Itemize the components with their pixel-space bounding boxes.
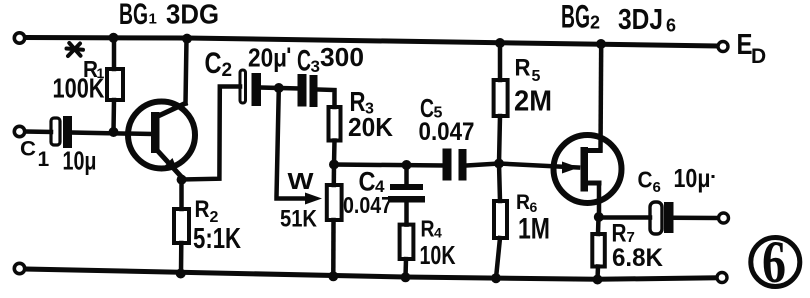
label C2 [205, 47, 233, 81]
node BG1 emitter junction [177, 175, 187, 185]
wire BG1 collector to rail [186, 39, 187, 104]
wire BG2 drain to rail [598, 44, 603, 151]
resistor R1 [107, 38, 123, 132]
svg-text:20μ: 20μ [248, 43, 287, 73]
svg-text:BG: BG [119, 0, 148, 31]
node source junction [594, 212, 604, 222]
svg-text:3DG: 3DG [166, 0, 219, 30]
svg-text:5: 5 [532, 68, 541, 85]
svg-text:10μ: 10μ [63, 146, 97, 176]
svg-text:6: 6 [762, 229, 786, 295]
svg-text:5:1K: 5:1K [193, 223, 241, 255]
capacitor C5 [443, 149, 467, 181]
wire node to C5 [334, 165, 443, 166]
label BG2 3DJ6 [561, 0, 676, 36]
node R2 bottom on rail [176, 269, 186, 279]
wire C6 to output terminal [674, 216, 718, 221]
arrow BG2 gate [562, 162, 579, 174]
label C3 [297, 42, 364, 78]
svg-text:BG: BG [561, 0, 590, 35]
label R7 [612, 220, 635, 248]
node R6 bottom on rail [491, 273, 501, 283]
node BG2 drain on rail [596, 39, 606, 49]
wire BG2 source down [597, 183, 602, 217]
transistor BG2 (FET) [554, 135, 622, 203]
terminal bottom-left [14, 263, 24, 273]
svg-text:2: 2 [590, 13, 600, 33]
terminal output mid-right [719, 213, 729, 223]
wire top supply rail [26, 38, 716, 47]
svg-text:2M: 2M [514, 86, 552, 118]
capacitor C6 [650, 202, 674, 234]
label C5 [420, 93, 443, 123]
svg-text:W: W [288, 168, 314, 194]
node R7 bottom on rail [593, 275, 603, 285]
label R6 [516, 191, 538, 215]
label R1 [83, 56, 105, 82]
node R5/R6/gate [494, 159, 504, 169]
capacitor C4 [388, 166, 425, 225]
capacitor C2 [240, 70, 261, 106]
resistor R7 [592, 217, 605, 279]
svg-text:51K: 51K [280, 206, 318, 233]
tick after 20u [288, 48, 291, 54]
svg-text:R: R [515, 55, 531, 82]
svg-text:1: 1 [149, 11, 157, 28]
transistor BG1 (NPN) [128, 102, 195, 178]
node R3/W junction [329, 160, 339, 170]
svg-text:3DJ: 3DJ [618, 4, 663, 36]
terminal input top-left [14, 33, 24, 43]
terminal bottom-right [717, 273, 727, 283]
asterisk mark [67, 43, 84, 56]
svg-text:C: C [20, 138, 36, 161]
wire junction down to W wiper [277, 89, 308, 199]
svg-text:1: 1 [38, 148, 50, 171]
resistor R6 [494, 164, 507, 279]
figure number circle [751, 238, 800, 287]
node C2/C3 junction [274, 83, 284, 93]
label R2 [195, 196, 219, 226]
svg-text:3: 3 [311, 57, 320, 76]
svg-text:6: 6 [653, 179, 661, 196]
wire emitter to C2 (up and over) [182, 87, 240, 180]
svg-text:300: 300 [320, 42, 364, 72]
svg-text:6.8K: 6.8K [612, 244, 663, 272]
capacitor C1 [51, 116, 72, 148]
label ED [737, 29, 767, 68]
resistor R2 [174, 180, 189, 273]
wire C5 to gate node [467, 164, 500, 166]
wire bottom ground rail [26, 269, 716, 279]
svg-text:10K: 10K [420, 240, 456, 270]
svg-text:6: 6 [666, 16, 676, 36]
svg-text:0.047: 0.047 [419, 118, 475, 146]
svg-text:10μ: 10μ [674, 163, 711, 193]
node W bottom on rail [328, 271, 338, 281]
wire C2 to C3 [261, 88, 298, 89]
svg-text:D: D [751, 45, 766, 68]
label C4 [359, 167, 386, 197]
label R4 [421, 216, 443, 242]
arrow W wiper [305, 193, 322, 205]
terminal ED top-right [718, 42, 728, 52]
node BG1 collector on rail [182, 34, 192, 44]
label BG1 3DG [119, 0, 219, 31]
label R3 [350, 86, 375, 118]
svg-text:1M: 1M [518, 213, 550, 246]
svg-text:0.047: 0.047 [343, 192, 392, 218]
svg-text:100K: 100K [53, 73, 105, 104]
svg-text:R: R [195, 196, 210, 223]
resistor R3 [329, 107, 341, 165]
svg-text:C: C [297, 45, 311, 78]
svg-text:4: 4 [434, 225, 442, 241]
tick after 10u C6 [712, 175, 715, 178]
node R4 bottom on rail [401, 272, 411, 282]
capacitor C3 [298, 74, 318, 107]
label C6 [638, 167, 661, 197]
svg-text:R: R [421, 216, 435, 242]
potentiometer W [327, 165, 342, 277]
node C4 top [402, 160, 412, 170]
wire C1 to BG1 base [72, 133, 151, 135]
svg-text:C: C [638, 167, 653, 193]
wire gate node to BG2 gate [499, 164, 578, 168]
label R5 [515, 55, 541, 86]
svg-text:R: R [516, 191, 530, 214]
resistor R4 [400, 225, 414, 277]
node R1 top on rail [109, 33, 119, 43]
terminal input mid-left [14, 126, 24, 136]
svg-text:C: C [205, 47, 222, 80]
svg-text:2: 2 [222, 60, 233, 81]
wire input to C1 [26, 129, 51, 134]
wire C3 to R3 [318, 90, 335, 108]
node R5 top on rail [495, 38, 505, 48]
node C1/R1/base junction [109, 127, 119, 137]
wire source to C6 [599, 215, 650, 220]
resistor R5 [494, 43, 508, 164]
label C1 [20, 138, 50, 172]
svg-text:20K: 20K [348, 112, 393, 142]
